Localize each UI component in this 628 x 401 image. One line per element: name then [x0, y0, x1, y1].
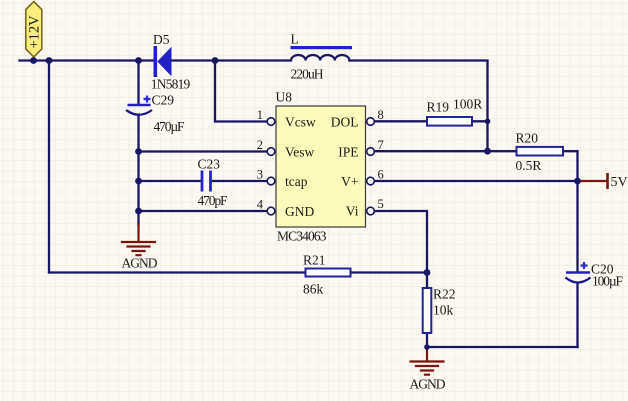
svg-text:7: 7 — [378, 138, 384, 152]
svg-text:100µF: 100µF — [592, 273, 623, 288]
wire top rail diode-to-inductor — [172, 59, 292, 61]
svg-text:8: 8 — [378, 108, 384, 122]
svg-text:0.5R: 0.5R — [516, 158, 542, 173]
junction R19 row at right vertical — [485, 119, 491, 125]
svg-text:3: 3 — [257, 168, 263, 182]
wire pin3 right of C23 — [212, 180, 267, 182]
svg-text:Vesw: Vesw — [285, 144, 314, 159]
wire bottom-left to R21 — [49, 271, 306, 273]
U8 pin 7 (IPE) — [338, 138, 384, 159]
junction on top rail at C29 — [135, 57, 142, 64]
wire R20 right and down to pin6 row — [563, 151, 578, 181]
junction pin2 row at C29 column — [135, 148, 142, 155]
wire C29 bottom down to pin4 row — [137, 115, 139, 225]
svg-text:5V: 5V — [611, 175, 628, 190]
wire C29 branch from top rail — [137, 61, 139, 105]
wire C20 top column — [576, 181, 578, 272]
wire bottom rail to C20 — [427, 346, 578, 348]
svg-text:D5: D5 — [153, 32, 170, 47]
svg-text:4: 4 — [257, 198, 264, 212]
wire pin8 to R19 — [374, 120, 427, 122]
svg-text:+12V: +12V — [27, 15, 43, 49]
junction on top rail at left vertical — [46, 57, 53, 64]
resistor R20 — [516, 131, 564, 173]
svg-text:R22: R22 — [433, 287, 456, 302]
svg-text:U8: U8 — [276, 90, 293, 105]
svg-text:1: 1 — [257, 108, 263, 122]
svg-text:R21: R21 — [303, 253, 326, 268]
wire R19 right to vertical — [472, 120, 488, 122]
U8 pin 8 (DOL) — [331, 108, 384, 129]
junction pin3 row at C29 column — [135, 178, 142, 185]
wire R21 to junction — [351, 271, 428, 273]
junction pin4 row at C29 column — [135, 208, 142, 215]
power port +12V — [26, 2, 43, 58]
svg-text:IPE: IPE — [338, 144, 358, 159]
wire R22 top stub — [426, 273, 428, 289]
svg-text:470pF: 470pF — [198, 193, 228, 208]
svg-text:1N5819: 1N5819 — [151, 77, 191, 92]
junction on top rail at pin1 branch — [212, 57, 219, 64]
diode D5 — [151, 32, 191, 92]
capacitor C23 — [198, 157, 228, 208]
svg-text:C29: C29 — [152, 93, 175, 108]
U8 pin 5 (Vi) — [346, 197, 384, 218]
wire pin2 to C29 column — [139, 150, 268, 152]
svg-text:AGND: AGND — [410, 377, 446, 392]
capacitor C29 — [126, 93, 185, 135]
svg-text:Vi: Vi — [346, 203, 359, 218]
IC U8 MC34063 body — [276, 90, 366, 244]
wire pin5 to R22 junction — [374, 211, 427, 273]
wire pin1 branch — [215, 61, 267, 122]
svg-text:tcap: tcap — [285, 174, 308, 189]
junction pin7 row at right vertical — [484, 148, 491, 155]
junction pin6 row at R20 vertical — [574, 178, 581, 185]
svg-text:R19: R19 — [427, 100, 450, 115]
svg-text:V+: V+ — [341, 174, 358, 189]
svg-text:R20: R20 — [516, 131, 539, 146]
wire 5V maroon segment — [578, 180, 607, 182]
capacitor C20 — [566, 262, 624, 289]
svg-text:MC34063: MC34063 — [277, 229, 327, 244]
wire top rail inductor-to-corner and down to pin7 row — [349, 61, 487, 152]
power port 5V — [608, 173, 628, 190]
junction R21 row at pin5 vertical — [424, 269, 431, 276]
wire top rail left — [20, 59, 154, 61]
resistor R22 — [423, 287, 456, 334]
ground AGND (left) — [122, 224, 158, 271]
svg-text:86k: 86k — [303, 282, 324, 297]
svg-text:AGND: AGND — [122, 256, 158, 271]
svg-text:DOL: DOL — [331, 114, 359, 129]
wire C20 bottom column — [576, 283, 578, 347]
svg-text:Vcsw: Vcsw — [285, 114, 316, 129]
svg-text:5: 5 — [378, 197, 384, 211]
svg-text:L: L — [291, 32, 299, 47]
svg-text:GND: GND — [285, 204, 314, 219]
svg-text:220uH: 220uH — [291, 67, 324, 82]
wire left vertical from top rail — [48, 61, 50, 273]
U8 pin 1 (Vcsw) — [257, 108, 316, 129]
wire pin7 row to R20 — [374, 150, 517, 152]
U8 pin 3 (tcap) — [257, 168, 308, 189]
resistor R21 — [303, 253, 351, 297]
svg-text:10k: 10k — [433, 303, 454, 318]
wire pin6 row — [374, 180, 578, 182]
wire pin4 row — [139, 210, 268, 212]
ground AGND (right) — [410, 347, 446, 392]
svg-text:470µF: 470µF — [154, 119, 185, 134]
wire R22 bottom stub — [426, 333, 428, 347]
U8 pin 6 (V+) — [341, 168, 384, 189]
resistor R19 — [427, 97, 483, 126]
inductor L — [291, 32, 353, 82]
wire pin3 left of C23 — [139, 180, 201, 182]
svg-text:2: 2 — [257, 138, 263, 152]
svg-text:100R: 100R — [453, 97, 482, 112]
junction on top rail at +12V port — [30, 57, 37, 64]
U8 pin 4 (GND) — [257, 198, 315, 219]
junction bottom rail at ground — [424, 344, 430, 350]
svg-text:6: 6 — [378, 168, 384, 182]
U8 pin 2 (Vesw) — [257, 138, 315, 159]
svg-text:C23: C23 — [198, 157, 221, 172]
